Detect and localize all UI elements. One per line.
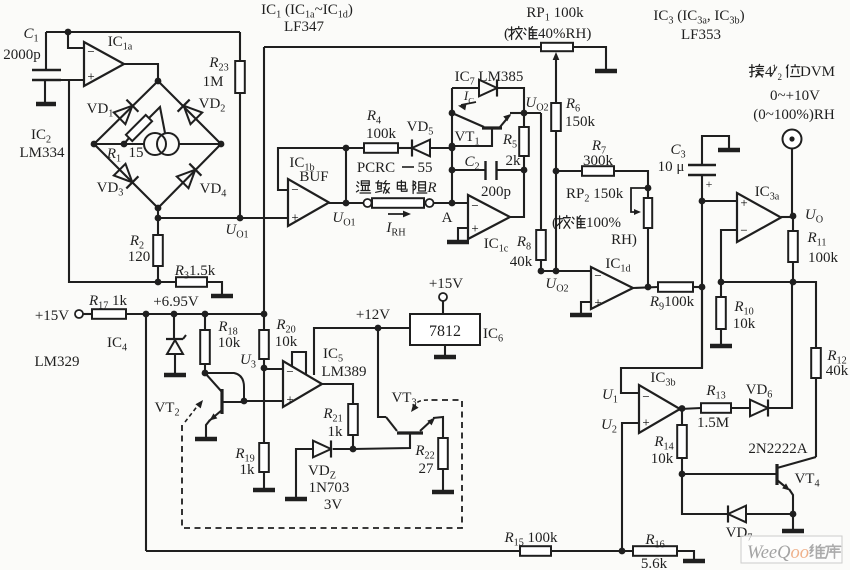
- diode VD1: [114, 100, 139, 125]
- junction dot R21 bottom: [350, 446, 357, 453]
- label 1N703: [309, 480, 350, 496]
- label U3: [240, 352, 256, 371]
- junction dot R6 bottom: [553, 268, 560, 275]
- node bridge top: [155, 78, 162, 85]
- junction dot VD5 to A column: [449, 145, 456, 152]
- label IC6: [483, 326, 503, 345]
- svg-text:−: −: [642, 389, 649, 404]
- ground above C3: [718, 148, 740, 153]
- wire emitter to ground: [792, 514, 794, 529]
- label R5: [502, 132, 517, 151]
- junction dot rail to bottom bus: [143, 311, 150, 318]
- diode VD5: [412, 139, 452, 156]
- wire IC1b feedback: [278, 148, 346, 190]
- resistor R19: [259, 368, 269, 488]
- ground right of R3: [211, 294, 233, 299]
- label UO: [805, 207, 823, 226]
- label RP1 100k: [526, 5, 584, 24]
- svg-text:0~+10V: 0~+10V: [770, 88, 820, 104]
- svg-text:10k: 10k: [218, 335, 241, 351]
- label R2: [129, 233, 144, 252]
- label R11 100k: [808, 250, 839, 266]
- svg-text:R3​1.5k: R3​1.5k: [174, 263, 216, 282]
- wire IC1d minus: [541, 270, 591, 272]
- label R18 10k: [218, 335, 241, 351]
- label C3: [670, 142, 685, 161]
- op-amp IC1c: [468, 195, 510, 239]
- resistor R13: [701, 403, 751, 413]
- junction dot R7 branch: [553, 168, 560, 175]
- resistor R11: [788, 216, 798, 282]
- wire node A column: [451, 88, 453, 203]
- resistor R21: [348, 404, 358, 449]
- wire VD6 to feedback net: [768, 282, 792, 408]
- capacitor C2: [452, 161, 524, 180]
- label R6: [565, 96, 580, 115]
- label R8: [516, 234, 531, 253]
- junction dot R10 top: [718, 279, 725, 286]
- label R19: [234, 446, 254, 465]
- wire +12V to VT3 collector: [378, 328, 386, 417]
- ground below IC4: [164, 373, 186, 378]
- resistor R7: [556, 166, 648, 188]
- label R17 1k: [88, 293, 128, 312]
- svg-text:−: −: [471, 198, 478, 213]
- label 2N2222A: [748, 441, 807, 457]
- svg-text:+: +: [740, 195, 747, 210]
- label RP1 cal: [504, 26, 591, 42]
- svg-text:1k: 1k: [240, 462, 256, 478]
- wire IC5 output: [322, 384, 353, 404]
- wire R14 node to VD7: [682, 474, 727, 514]
- svg-text:120: 120: [128, 249, 151, 265]
- wire IC3a minus feedback: [721, 230, 737, 282]
- resistor R5: [519, 113, 529, 170]
- label R6 150k: [565, 114, 596, 130]
- junction dot IC3a plus branch: [699, 198, 706, 205]
- wire IC1b output: [329, 202, 346, 204]
- humidity resistor PCRC-55: [346, 198, 468, 208]
- label U1: [602, 387, 618, 406]
- resistor R8: [536, 113, 546, 271]
- label LF353: [681, 27, 721, 43]
- label R1: [106, 146, 121, 165]
- current source IC2 circles: [144, 133, 179, 155]
- svg-text:2000p: 2000p: [3, 47, 41, 63]
- label R12 40k: [826, 363, 849, 379]
- label IC7 LM385: [455, 69, 524, 88]
- wire RP1 left column: [263, 47, 265, 314]
- arrow Ic: [457, 102, 476, 110]
- label R4: [366, 108, 381, 127]
- svg-text:15: 15: [129, 145, 144, 161]
- label VD3: [97, 180, 124, 199]
- label VD2: [199, 96, 226, 115]
- resistor R17: [92, 309, 126, 319]
- label C3 plus: [706, 177, 713, 191]
- resistor R12: [811, 348, 821, 457]
- wire feedback net: [721, 282, 816, 348]
- resistor R1: [124, 107, 165, 144]
- dashed leader to VT2: [185, 398, 206, 422]
- resistor R20: [259, 314, 269, 368]
- junction dot R11 bottom: [790, 279, 797, 286]
- label VD5: [407, 119, 434, 138]
- wire VT1 base: [452, 128, 492, 146]
- wire bridge arm bottom-right: [158, 144, 221, 208]
- label 1M: [203, 74, 224, 90]
- label IC5: [323, 346, 343, 365]
- label VT4: [794, 471, 819, 490]
- ground at IC1d: [570, 313, 592, 318]
- label IC1b: [289, 155, 314, 174]
- junction dot VT1 base: [449, 143, 456, 150]
- wire R18 to VT2 base: [205, 373, 244, 401]
- wire to IC7 anode: [452, 87, 479, 89]
- label IC1c: [484, 236, 509, 255]
- node bridge right: [218, 141, 225, 148]
- resistor R6: [551, 103, 561, 271]
- svg-text:LM389: LM389: [322, 364, 367, 380]
- label +12V: [356, 307, 390, 323]
- junction dot UO2 node: [521, 110, 528, 117]
- label R15 100k: [503, 530, 558, 549]
- op-amp IC1b: [288, 179, 329, 226]
- svg-text:100k: 100k: [808, 250, 839, 266]
- svg-text:10 μ: 10 μ: [658, 159, 685, 175]
- label R7: [591, 138, 606, 157]
- junction dot U2 bottom: [619, 548, 626, 555]
- junction dot VT1 collector: [449, 110, 456, 117]
- label C1: [23, 26, 38, 45]
- label IC1 group: [261, 2, 353, 21]
- label VD6: [746, 382, 773, 401]
- svg-text:BUF: BUF: [299, 169, 328, 185]
- wire +15V rail: [126, 313, 264, 315]
- junction dot UO1 node: [343, 200, 350, 207]
- wire bridge inner left: [94, 143, 144, 145]
- wire R23 bottom: [239, 93, 241, 218]
- svg-text:+15V: +15V: [35, 308, 69, 324]
- label R18: [217, 319, 237, 338]
- wire IC3b output: [680, 408, 701, 409]
- wire terminal to 7812: [442, 301, 444, 314]
- svg-text:(: (: [552, 215, 557, 231]
- svg-text:1.5M: 1.5M: [697, 415, 729, 431]
- label PCRC-55: [357, 160, 433, 176]
- junction dot R8 bottom: [538, 268, 545, 275]
- ground right of R16: [683, 559, 705, 564]
- junction dot IC1a inverting branch: [65, 29, 72, 36]
- label IC3b: [650, 370, 675, 389]
- label RP2 150k: [566, 186, 624, 205]
- label VT3: [391, 390, 416, 409]
- label +15V input: [35, 308, 69, 324]
- svg-text:+6.95V: +6.95V: [153, 294, 199, 310]
- label 15: [129, 145, 144, 161]
- wire U2 input: [622, 423, 639, 551]
- svg-text:WeeQoo: WeeQoo: [747, 543, 809, 563]
- wire IC1c output column: [510, 170, 524, 217]
- node bridge bottom: [155, 205, 162, 212]
- wire bridge arm top-left: [94, 81, 158, 144]
- svg-text:40%RH): 40%RH): [538, 26, 591, 42]
- svg-text:RP1​ 100k: RP1​ 100k: [526, 5, 584, 24]
- label R21 1k: [328, 424, 344, 440]
- svg-text:A: A: [442, 210, 453, 226]
- svg-text:LF353: LF353: [681, 27, 721, 43]
- dashed enclosure box: [182, 400, 462, 528]
- wire C3 column: [701, 201, 703, 368]
- label R11: [807, 230, 827, 249]
- wire U3 to IC5 minus: [264, 368, 283, 370]
- label LM329: [35, 354, 80, 370]
- resistor R23: [235, 61, 245, 93]
- regulator 7812 IC6: [410, 314, 480, 345]
- junction dot RP2 bottom: [645, 284, 652, 291]
- label R22: [414, 443, 434, 462]
- potentiometer RP2: [631, 188, 652, 287]
- label R13 1.5M: [697, 415, 729, 431]
- wire R23 top: [239, 32, 241, 61]
- label R5 2k: [506, 153, 522, 169]
- junction dot C2 left: [449, 167, 456, 174]
- label BUF: [299, 169, 328, 185]
- junction dot above R2: [155, 215, 162, 222]
- label R14: [653, 434, 673, 453]
- ground below C1: [36, 102, 56, 107]
- svg-text:1k: 1k: [328, 424, 344, 440]
- label UO1 at IC1b: [332, 210, 355, 229]
- node bridge left: [91, 141, 98, 148]
- svg-text:200p: 200p: [481, 184, 511, 200]
- junction dot R1 tap: [121, 141, 128, 148]
- op-amp IC5: [283, 361, 322, 407]
- svg-text:+: +: [87, 69, 94, 84]
- svg-text:IC7​ LM385: IC7​ LM385: [455, 69, 524, 88]
- label R3 1.5k: [174, 263, 216, 282]
- diode VD6: [750, 399, 768, 416]
- svg-text:100%: 100%: [586, 215, 621, 231]
- transistor VT1: [452, 112, 524, 128]
- ground below VT2: [195, 437, 217, 442]
- junction dot +12V: [375, 325, 382, 332]
- label 3V: [324, 497, 343, 513]
- junction dot node A: [449, 200, 456, 207]
- junction dot C2 right: [521, 167, 528, 174]
- svg-text:DVM: DVM: [800, 64, 835, 80]
- ground below VT4: [782, 529, 804, 534]
- svg-text:27: 27: [419, 461, 435, 477]
- svg-text:LM334: LM334: [20, 145, 66, 161]
- diode VD4: [177, 164, 202, 189]
- svg-text:40k: 40k: [826, 363, 849, 379]
- ground below R22: [432, 490, 454, 495]
- wiper RP1: [553, 52, 560, 103]
- resistor R2: [153, 218, 163, 282]
- label IC3 group: [653, 8, 744, 27]
- label +6.95V: [153, 294, 199, 310]
- svg-text:LF347: LF347: [284, 19, 325, 35]
- svg-text:+: +: [706, 177, 713, 191]
- wire UO1 to IC1b plus: [158, 217, 288, 219]
- label R9 100k: [649, 294, 695, 313]
- svg-text:−: −: [286, 364, 293, 379]
- wire left column +6.95V feed: [69, 80, 158, 282]
- arrow IRH: [388, 211, 411, 218]
- resistor R3: [158, 277, 222, 294]
- wire UO2 to R8: [524, 112, 541, 114]
- label VDz: [308, 463, 336, 482]
- wire bridge arm bottom-left: [94, 144, 158, 208]
- wire IC1c plus to ground: [458, 228, 468, 240]
- ground below R10: [710, 344, 732, 349]
- diode IC7 LM385: [479, 79, 497, 96]
- junction dot rail to R18: [202, 311, 209, 318]
- wire bridge inner right: [179, 143, 221, 145]
- resistor R14: [677, 408, 687, 474]
- label Ic: [463, 88, 474, 106]
- label RP2 cal: [552, 215, 621, 231]
- svg-text:+12V: +12V: [356, 307, 390, 323]
- op-amp IC1a: [84, 42, 124, 86]
- label R14 10k: [651, 451, 674, 467]
- wire bridge arm top-right: [158, 81, 221, 144]
- label R21: [322, 406, 342, 425]
- label DVM line1: [749, 63, 835, 82]
- wire +12V rail: [314, 328, 410, 375]
- resistor R22: [438, 438, 448, 490]
- junction dot VT2 base node: [241, 398, 248, 405]
- op-amp IC3b: [639, 385, 680, 433]
- junction dot RP2 top: [645, 185, 652, 192]
- resistor R15: [520, 546, 633, 556]
- label humidity sensor cjk: [356, 180, 436, 196]
- diode VD7: [728, 505, 746, 522]
- label IC1d: [605, 256, 630, 275]
- ground below VDz: [285, 497, 307, 502]
- svg-text:−: −: [740, 223, 747, 238]
- capacitor C3: [688, 136, 729, 201]
- wire VT2 base: [222, 401, 244, 403]
- label IC3a: [755, 184, 780, 203]
- label R13: [705, 383, 725, 402]
- label R7 300k: [583, 153, 614, 169]
- svg-text:PCRC: PCRC: [357, 160, 395, 176]
- label 120: [128, 249, 151, 265]
- label UO1 left: [225, 222, 248, 241]
- label IC4: [107, 335, 127, 354]
- wire VDz node to VT3 base: [353, 434, 410, 449]
- wire bridge bottom to node: [157, 208, 159, 218]
- label node A: [442, 210, 453, 226]
- label VT1: [454, 129, 479, 148]
- label UO2 at IC1d: [545, 276, 568, 295]
- resistor R4: [346, 143, 412, 153]
- svg-text:R17​ 1k: R17​ 1k: [88, 293, 128, 312]
- dashed leader to VT3: [408, 400, 428, 414]
- wire terminal to R17: [83, 313, 92, 315]
- svg-text:150k: 150k: [565, 114, 596, 130]
- svg-text:40k: 40k: [510, 254, 533, 270]
- svg-text:2N2222A: 2N2222A: [748, 441, 807, 457]
- resistor R18: [200, 314, 210, 373]
- label R22 27: [419, 461, 435, 477]
- wire VDz anode to ground: [296, 449, 313, 497]
- junction dot R23 to UO1 wire: [237, 215, 244, 222]
- svg-text:2k: 2k: [506, 153, 522, 169]
- label 2000p: [3, 47, 41, 63]
- label DVM line3: [753, 107, 835, 123]
- resistor R9: [658, 282, 702, 292]
- capacitor C1: [32, 32, 61, 103]
- label +15V above 7812: [429, 276, 463, 292]
- label LM334: [20, 145, 66, 161]
- svg-text:10k: 10k: [651, 451, 674, 467]
- label R4 100k: [366, 126, 397, 142]
- label IC2: [31, 127, 51, 146]
- junction dot R9 right: [699, 284, 706, 291]
- junction dot R18 bottom: [202, 370, 209, 377]
- svg-text:+15V: +15V: [429, 276, 463, 292]
- transistor VT3: [386, 416, 443, 438]
- junction dot R4 branch: [343, 145, 350, 152]
- junction dot R14 branch: [679, 405, 686, 412]
- svg-text:R: R: [426, 180, 436, 196]
- wire IC7 cathode to UO2: [497, 88, 524, 113]
- junction dot U3: [261, 365, 268, 372]
- terminal +15V 7812: [439, 293, 447, 301]
- zener IC4 LM329: [166, 314, 186, 373]
- svg-text:10k: 10k: [275, 334, 298, 350]
- label RP2 cal RH: [611, 232, 637, 248]
- svg-text:300k: 300k: [583, 153, 614, 169]
- label R10: [733, 299, 753, 318]
- wire top rail from C1 to R23: [46, 31, 240, 33]
- label LM389: [322, 364, 367, 380]
- svg-text:RP2​ 150k: RP2​ 150k: [566, 186, 624, 205]
- label VD1: [87, 101, 114, 120]
- ground below R19: [253, 488, 275, 493]
- svg-text:(: (: [504, 26, 509, 42]
- svg-text:1N703: 1N703: [309, 480, 350, 496]
- label R16 5.6k: [641, 556, 668, 570]
- wire VD7 to VT4 emitter: [746, 513, 793, 515]
- label IC1a: [108, 34, 133, 53]
- label R10 10k: [733, 316, 756, 332]
- svg-text:5.6k: 5.6k: [641, 556, 668, 570]
- op-amp IC3a: [737, 193, 781, 242]
- label IRH: [385, 220, 406, 239]
- svg-text:7812: 7812: [429, 323, 461, 340]
- wire IC5 feedback loop: [292, 352, 306, 374]
- svg-text:+: +: [291, 210, 298, 225]
- wire left bus down: [145, 314, 147, 551]
- op-amp IC1d: [591, 267, 633, 310]
- wire IC3a output: [781, 216, 793, 218]
- label VD7: [726, 525, 753, 544]
- label R23: [208, 55, 228, 74]
- junction dot R14 bottom: [679, 471, 686, 478]
- svg-text:−: −: [594, 268, 601, 283]
- svg-text:+: +: [594, 295, 601, 310]
- svg-text:RH): RH): [611, 232, 637, 248]
- label R12: [826, 348, 846, 367]
- label C2 200p: [481, 184, 511, 200]
- wire bottom bus: [146, 550, 520, 552]
- label LF347: [284, 19, 325, 35]
- wire IC1d plus to ground: [581, 302, 591, 313]
